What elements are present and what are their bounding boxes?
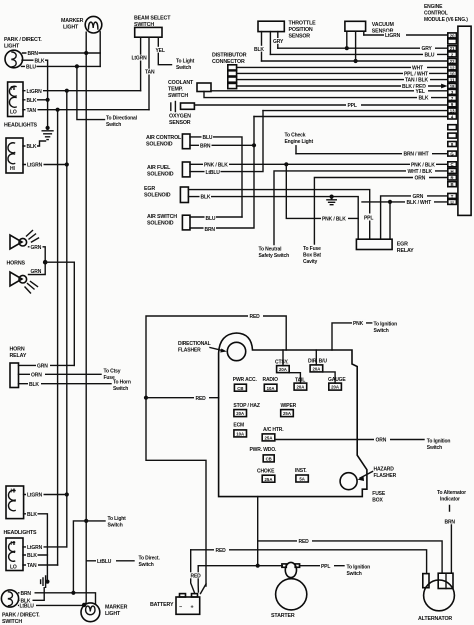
svg-text:Switch: Switch xyxy=(108,522,123,528)
svg-text:ALTERNATOR: ALTERNATOR xyxy=(418,616,452,622)
svg-text:HEADLIGHTS: HEADLIGHTS xyxy=(4,123,38,129)
svg-text:DIR. B/U: DIR. B/U xyxy=(308,358,327,364)
svg-text:EGR: EGR xyxy=(144,186,155,192)
svg-text:21: 21 xyxy=(450,46,455,51)
horn 2 xyxy=(10,272,22,286)
svg-text:ECM: ECM xyxy=(233,423,244,429)
svg-text:LIGHT: LIGHT xyxy=(4,44,20,50)
svg-text:BLK / WHT: BLK / WHT xyxy=(407,200,432,206)
svg-text:To Ignition: To Ignition xyxy=(427,438,451,444)
wire marker left pin / long bus down xyxy=(84,32,86,605)
svg-text:LtGRN: LtGRN xyxy=(385,33,401,39)
vacuum sensor left pin to GRY xyxy=(346,31,348,48)
svg-text:Safety Switch: Safety Switch xyxy=(259,253,290,259)
to check engine light lead xyxy=(295,146,297,154)
svg-text:YEL: YEL xyxy=(156,48,165,54)
wire ORN fuse box to ignition switch xyxy=(275,439,424,441)
junction BRN net xyxy=(252,143,256,147)
svg-text:BRN: BRN xyxy=(200,144,211,150)
svg-text:YEL: YEL xyxy=(416,89,425,95)
wire ORN pin R to fuse box bat cavity xyxy=(314,178,447,245)
svg-text:25A: 25A xyxy=(265,477,273,482)
wire RED battery feed loop xyxy=(146,316,286,586)
svg-text:SOLENOID: SOLENOID xyxy=(147,221,174,227)
wire LtGRN bus headlights to beam switch xyxy=(23,90,141,92)
wire BLU solenoid4 xyxy=(190,216,242,218)
svg-text:BLK: BLK xyxy=(254,47,264,53)
svg-text:20: 20 xyxy=(450,33,455,38)
svg-text:PWR. WDO.: PWR. WDO. xyxy=(250,447,277,453)
svg-text:BRN / WHT: BRN / WHT xyxy=(404,152,429,158)
svg-text:LtGRN: LtGRN xyxy=(132,56,148,62)
wire BRN park light to marker xyxy=(23,52,101,54)
wire RED battery to alternator left xyxy=(191,550,427,574)
wire BLK conn4 xyxy=(23,554,47,556)
wire GRY to pin 21 xyxy=(278,47,448,49)
junction PPL line xyxy=(256,564,260,568)
fuse TAIL 20A xyxy=(289,373,300,383)
svg-text:U: U xyxy=(451,200,454,205)
junction BRN x bus xyxy=(84,51,88,55)
wire BRN alternator indicator xyxy=(450,506,452,574)
svg-text:Switch: Switch xyxy=(139,562,154,568)
svg-text:SOLENOID: SOLENOID xyxy=(146,142,173,148)
svg-text:PNK / BLK: PNK / BLK xyxy=(322,217,346,223)
svg-text:LtGRN: LtGRN xyxy=(27,545,43,551)
svg-text:To Ignition: To Ignition xyxy=(347,564,371,570)
svg-text:DIRECTIONAL: DIRECTIONAL xyxy=(178,341,211,347)
svg-text:BEAM SELECT: BEAM SELECT xyxy=(134,16,171,22)
wire LtGRN to pin 20 xyxy=(364,34,448,36)
svg-text:INST.: INST. xyxy=(295,468,307,474)
svg-text:TAN / BLK: TAN / BLK xyxy=(405,78,429,84)
park/direct light (top) xyxy=(5,50,23,68)
svg-text:PARK / DIRECT.: PARK / DIRECT. xyxy=(2,613,40,619)
wire WHT/BLK pin H to neutral safety switch xyxy=(274,171,448,245)
svg-text:CB: CB xyxy=(266,457,272,462)
svg-text:+: + xyxy=(191,604,194,610)
svg-text:SWITCH: SWITCH xyxy=(2,619,22,625)
svg-text:−: − xyxy=(179,604,182,610)
svg-text:HI: HI xyxy=(10,166,15,172)
wire marker right pin down to BRN/BLU xyxy=(99,32,101,67)
svg-text:12: 12 xyxy=(450,65,455,70)
EGR relay K1 xyxy=(356,239,392,249)
svg-text:RELAY: RELAY xyxy=(397,248,414,254)
wire GRN horn1 xyxy=(29,247,46,262)
svg-text:To Horn: To Horn xyxy=(113,380,131,386)
svg-text:To Light: To Light xyxy=(176,59,195,65)
vacuum sensor U3 xyxy=(345,21,366,31)
svg-text:To Direct.: To Direct. xyxy=(139,555,161,561)
svg-text:C: C xyxy=(451,162,454,167)
svg-text:TEMP.: TEMP. xyxy=(168,87,183,93)
svg-text:STARTER: STARTER xyxy=(271,613,295,619)
BRN net vertical pin4 to solenoid4 xyxy=(190,117,254,229)
wire LtGRN conn3 xyxy=(24,494,67,496)
wire LtBLU solenoid2 to pin13 net xyxy=(190,111,263,172)
svg-text:BLK: BLK xyxy=(27,144,37,150)
ECM pin boxes xyxy=(448,33,457,205)
svg-text:GRY: GRY xyxy=(273,39,284,45)
wire to light switch xyxy=(86,520,105,522)
svg-text:AIR SWITCH: AIR SWITCH xyxy=(147,214,177,220)
svg-text:To Ignition: To Ignition xyxy=(374,321,398,327)
svg-text:VACUUM: VACUUM xyxy=(372,22,395,28)
headlight connector 2 xyxy=(6,138,23,173)
alternator G5 xyxy=(423,574,429,588)
svg-text:22: 22 xyxy=(450,59,455,64)
svg-text:TAN: TAN xyxy=(27,108,37,114)
svg-text:To Alternator: To Alternator xyxy=(437,490,466,496)
marker light (top) xyxy=(85,16,102,33)
svg-text:BRN: BRN xyxy=(445,520,456,526)
wire ORN to ctsy fuse xyxy=(19,373,102,375)
svg-text:11: 11 xyxy=(450,78,455,83)
wire BLK/WHT pin U to EGR relay xyxy=(362,201,448,203)
svg-text:PNK / BLK: PNK / BLK xyxy=(204,162,228,168)
wire BRN park2 to marker2 xyxy=(19,593,96,604)
svg-text:HORN: HORN xyxy=(10,347,25,353)
svg-text:AIR CONTROL: AIR CONTROL xyxy=(146,135,182,141)
svg-text:BATTERY: BATTERY xyxy=(150,602,174,608)
svg-text:BRN: BRN xyxy=(21,591,32,597)
svg-text:RED: RED xyxy=(299,539,310,545)
svg-text:WIPER: WIPER xyxy=(281,403,297,409)
svg-text:BLU: BLU xyxy=(203,135,213,141)
svg-text:MARKER: MARKER xyxy=(61,18,84,24)
wire PPL/WHT to pin 10 xyxy=(237,72,448,74)
fuse GAUGE 20A xyxy=(323,372,335,383)
svg-text:18: 18 xyxy=(450,84,455,89)
svg-text:LtBLU: LtBLU xyxy=(20,604,35,610)
svg-text:GAUGE: GAUGE xyxy=(328,377,346,383)
wire WHT to pin 12 xyxy=(237,66,448,68)
svg-text:BLK: BLK xyxy=(35,58,45,64)
svg-text:FLASHER: FLASHER xyxy=(178,348,201,354)
svg-text:CB: CB xyxy=(237,386,243,391)
svg-text:To Check: To Check xyxy=(285,133,306,139)
wire LtBLU to direct switch xyxy=(86,560,134,562)
svg-text:ENGINE: ENGINE xyxy=(424,4,443,10)
wire BLK to pin 7 xyxy=(204,92,448,98)
beam select switch xyxy=(135,27,162,37)
svg-text:HI: HI xyxy=(11,541,16,547)
wire BLK park light down xyxy=(22,60,48,100)
svg-text:RELAY: RELAY xyxy=(10,353,27,359)
svg-text:PARK / DIRECT.: PARK / DIRECT. xyxy=(4,37,42,43)
svg-text:PNK / BLK: PNK / BLK xyxy=(411,162,435,168)
svg-text:FLASHER: FLASHER xyxy=(374,473,397,479)
svg-text:T: T xyxy=(451,194,454,199)
svg-text:25A: 25A xyxy=(283,411,291,416)
wire BLK connector2 to ground xyxy=(23,141,46,146)
svg-text:Box Bat: Box Bat xyxy=(303,252,321,258)
fuse box outline xyxy=(219,333,367,497)
wire RED fusebox to battery and starter xyxy=(257,497,259,566)
svg-text:LtBLU: LtBLU xyxy=(97,559,112,565)
junction LtGRN bus xyxy=(65,89,69,93)
svg-text:H: H xyxy=(451,169,454,174)
junction BLU to directional branch xyxy=(75,64,79,68)
svg-text:BLK: BLK xyxy=(201,195,211,201)
wire GRN horn2 xyxy=(29,262,46,274)
svg-text:HI: HI xyxy=(11,86,16,92)
wire TAN bus headlights to beam switch xyxy=(23,109,149,111)
svg-text:RED: RED xyxy=(191,574,202,580)
svg-text:BRN: BRN xyxy=(205,227,216,233)
wire TPS middle pin to BLU xyxy=(269,32,271,55)
svg-text:Switch: Switch xyxy=(113,386,128,392)
wire RED to alternator mid xyxy=(258,541,442,573)
svg-text:AIR FUEL: AIR FUEL xyxy=(147,165,171,171)
svg-text:Switch: Switch xyxy=(176,65,191,71)
svg-text:SENSOR: SENSOR xyxy=(289,34,311,40)
wire BLU solenoid1 to solenoid4 xyxy=(190,137,242,217)
junction PNK/BLK net xyxy=(284,162,288,166)
headlight connector 3 xyxy=(6,486,24,519)
wire to pin 13 from LtBLU net xyxy=(263,110,448,112)
wire PPL egr solenoid to EGR relay xyxy=(188,190,369,240)
svg-text:20A: 20A xyxy=(236,411,244,416)
fuse DIR B/U 20A xyxy=(315,350,317,365)
wire PPL starter to ignition switch xyxy=(198,565,344,567)
svg-text:B: B xyxy=(451,182,454,187)
svg-text:LIGHT: LIGHT xyxy=(63,25,79,31)
svg-text:SWITCH: SWITCH xyxy=(168,93,188,99)
svg-text:5A: 5A xyxy=(299,477,305,482)
svg-text:Engine Light: Engine Light xyxy=(285,139,314,145)
headlight connector 4 xyxy=(6,538,23,571)
svg-text:RED: RED xyxy=(216,548,227,554)
wire BRN/WHT to pin G xyxy=(296,153,448,155)
svg-text:STOP / HAZ: STOP / HAZ xyxy=(233,403,259,409)
svg-text:A/C HTR.: A/C HTR. xyxy=(263,427,284,433)
wire to pin 4 from BRN net xyxy=(254,116,448,118)
svg-text:20A: 20A xyxy=(312,367,320,372)
wire LtBLU park2 to marker2 xyxy=(19,604,84,606)
svg-text:GRN: GRN xyxy=(31,245,42,251)
svg-text:TAN: TAN xyxy=(145,70,155,76)
svg-text:PPL: PPL xyxy=(348,103,357,109)
wire BLU to pin 2 xyxy=(270,53,447,55)
svg-text:LO: LO xyxy=(10,565,17,571)
wire YEL to pin 3 xyxy=(211,90,448,92)
ground G2 xyxy=(45,580,49,584)
headlight connector 1 xyxy=(8,82,23,117)
svg-text:BLK: BLK xyxy=(27,512,37,518)
wire YEL to light switch xyxy=(158,37,171,64)
svg-text:FUSE: FUSE xyxy=(372,491,386,497)
wire LtGRN connector2 xyxy=(23,164,67,166)
wire PNK to ignition switch xyxy=(332,323,372,350)
svg-text:SWITCH: SWITCH xyxy=(134,22,154,28)
svg-text:HEADLIGHTS: HEADLIGHTS xyxy=(4,530,38,536)
svg-text:HI: HI xyxy=(11,489,16,495)
svg-text:HORNS: HORNS xyxy=(7,261,26,267)
wire LtGRN conn4 xyxy=(23,546,67,548)
svg-text:GRN: GRN xyxy=(31,269,42,275)
svg-text:LtGRN: LtGRN xyxy=(27,163,43,169)
svg-text:BLK: BLK xyxy=(419,96,429,102)
svg-text:RADIO: RADIO xyxy=(263,377,279,383)
svg-text:10A: 10A xyxy=(267,386,275,391)
wire RED to fuse box xyxy=(146,397,219,399)
svg-text:20A: 20A xyxy=(331,385,339,390)
fuse CTSY 20A xyxy=(282,350,284,366)
svg-text:RED: RED xyxy=(196,396,207,402)
svg-text:LtBLU: LtBLU xyxy=(206,170,221,176)
svg-text:SOLENOID: SOLENOID xyxy=(144,193,171,199)
junction LtGRN conn3 xyxy=(65,492,69,496)
wire to pin 22 xyxy=(262,60,448,62)
svg-text:OXYGEN: OXYGEN xyxy=(169,114,191,120)
svg-text:BRN: BRN xyxy=(28,51,39,57)
svg-text:BLU: BLU xyxy=(206,216,216,222)
svg-text:BLK: BLK xyxy=(27,98,37,104)
svg-text:MODULE (V6 ENG.): MODULE (V6 ENG.) xyxy=(424,17,468,23)
svg-text:Switch: Switch xyxy=(427,445,442,451)
wire PPL to pin 9 xyxy=(194,104,447,106)
park/direct light (bottom) xyxy=(1,590,18,607)
svg-text:ORN: ORN xyxy=(415,176,426,182)
svg-text:Switch: Switch xyxy=(374,328,389,334)
svg-text:Switch: Switch xyxy=(106,122,121,128)
wire TAN beam pin xyxy=(148,37,150,110)
wire branch to BRN park xyxy=(73,521,86,593)
svg-text:ORN: ORN xyxy=(31,372,42,378)
vacuum sensor middle pin to pin22 line xyxy=(355,31,357,61)
svg-text:CTSY.: CTSY. xyxy=(275,360,289,366)
svg-text:LtGRN: LtGRN xyxy=(27,89,43,95)
svg-text:10A: 10A xyxy=(236,432,244,437)
marker light (bottom) xyxy=(81,603,100,622)
battery B1 xyxy=(176,597,200,614)
svg-text:WHT / BLK: WHT / BLK xyxy=(408,169,433,175)
wire TAN conn4 xyxy=(23,564,58,566)
wire BLK conn3 down to ground xyxy=(24,514,48,582)
svg-text:10: 10 xyxy=(450,71,455,76)
wire horns to horn relay xyxy=(45,262,74,365)
svg-text:GRN: GRN xyxy=(37,364,48,370)
junction TAN bus xyxy=(56,108,60,112)
svg-text:BOX: BOX xyxy=(372,497,383,503)
svg-text:LtGRN: LtGRN xyxy=(27,493,43,499)
junction BLK xyxy=(46,98,50,102)
junction horns xyxy=(43,260,48,265)
svg-text:ORN: ORN xyxy=(376,438,387,444)
wire BLK park2 to ground xyxy=(19,588,45,601)
svg-text:Cavity: Cavity xyxy=(303,259,317,265)
wire BLU park light xyxy=(22,65,101,67)
svg-text:LO: LO xyxy=(10,110,17,116)
svg-text:PPL: PPL xyxy=(321,564,330,570)
svg-text:PPL: PPL xyxy=(364,216,373,222)
LtGRN long vertical xyxy=(66,91,68,547)
ground G3 xyxy=(330,195,334,199)
svg-text:To Light: To Light xyxy=(108,516,127,522)
svg-text:To Fuse: To Fuse xyxy=(303,246,321,252)
svg-text:To Neutral: To Neutral xyxy=(259,247,283,253)
oxygen sensor xyxy=(170,103,172,110)
wire TAN/BLK to pin 11 xyxy=(237,79,448,81)
svg-text:BLU: BLU xyxy=(26,65,36,71)
throttle position sensor U2 xyxy=(258,21,284,31)
svg-text:EGR: EGR xyxy=(397,242,408,248)
starter M1 xyxy=(282,564,286,567)
svg-text:MARKER: MARKER xyxy=(105,605,128,611)
svg-text:13: 13 xyxy=(450,109,455,114)
svg-text:HAZARD: HAZARD xyxy=(374,466,395,472)
svg-text:BLU: BLU xyxy=(425,52,435,58)
svg-text:THROTTLE: THROTTLE xyxy=(289,21,317,27)
svg-text:25A: 25A xyxy=(265,436,273,441)
svg-text:Switch: Switch xyxy=(347,571,362,577)
wire BLK egr solenoid to EGR relay xyxy=(188,197,358,240)
svg-text:PWR ACC.: PWR ACC. xyxy=(233,377,258,383)
svg-text:To Directional: To Directional xyxy=(106,116,138,122)
junction To Light Switch xyxy=(84,519,88,523)
wire BLK headlights xyxy=(23,99,48,101)
svg-text:To Ctsy: To Ctsy xyxy=(104,369,121,375)
svg-text:PNK: PNK xyxy=(353,321,364,327)
TAN long vertical xyxy=(57,110,59,565)
svg-text:CHOKE: CHOKE xyxy=(257,468,275,474)
wire BLK/RED to pin 18 with arrow xyxy=(237,85,442,87)
wire GRN pin T to EGR relay xyxy=(381,196,448,239)
wire LtGRN beam pin xyxy=(140,37,142,90)
svg-text:COOLANT: COOLANT xyxy=(168,80,194,86)
junction LtGRN conn2 xyxy=(65,162,69,166)
svg-text:BLK: BLK xyxy=(29,382,39,388)
wire TPS BLK pin to pin 22 and LtBLU net xyxy=(261,32,263,61)
directional flasher xyxy=(227,342,245,360)
vacuum sensor right pin LtGRN xyxy=(363,31,365,35)
svg-text:20A: 20A xyxy=(279,367,287,372)
svg-text:Indicator: Indicator xyxy=(440,497,460,503)
horn 1 xyxy=(10,235,22,249)
svg-text:POSITION: POSITION xyxy=(289,27,313,33)
svg-text:SENSOR: SENSOR xyxy=(169,120,191,126)
ground G1 xyxy=(47,100,49,129)
wire GRN horn relay xyxy=(19,364,75,366)
svg-text:BLK: BLK xyxy=(27,553,37,559)
junction BRN branch xyxy=(71,591,75,595)
svg-text:SOLENOID: SOLENOID xyxy=(147,172,174,178)
svg-text:RED: RED xyxy=(250,314,261,320)
wire BRN solenoid1 xyxy=(190,144,254,146)
wire to directional switch xyxy=(77,66,105,119)
wire PNK/BLK to pin C xyxy=(190,163,448,165)
svg-text:DISTRIBUTOR: DISTRIBUTOR xyxy=(212,53,247,59)
svg-text:20A: 20A xyxy=(296,385,304,390)
hazard flasher xyxy=(340,473,357,490)
wire TPS GRY pin xyxy=(277,32,279,49)
wire PNK/BLK net to EGR relay xyxy=(286,164,358,218)
svg-text:TAN: TAN xyxy=(27,563,37,569)
svg-text:LIGHT: LIGHT xyxy=(105,611,121,617)
junction RED xyxy=(144,396,148,400)
svg-text:CONTROL: CONTROL xyxy=(424,11,448,17)
junction marker2 xyxy=(82,603,86,607)
battery cables xyxy=(191,550,195,594)
wire BLK to horn switch xyxy=(19,383,112,385)
